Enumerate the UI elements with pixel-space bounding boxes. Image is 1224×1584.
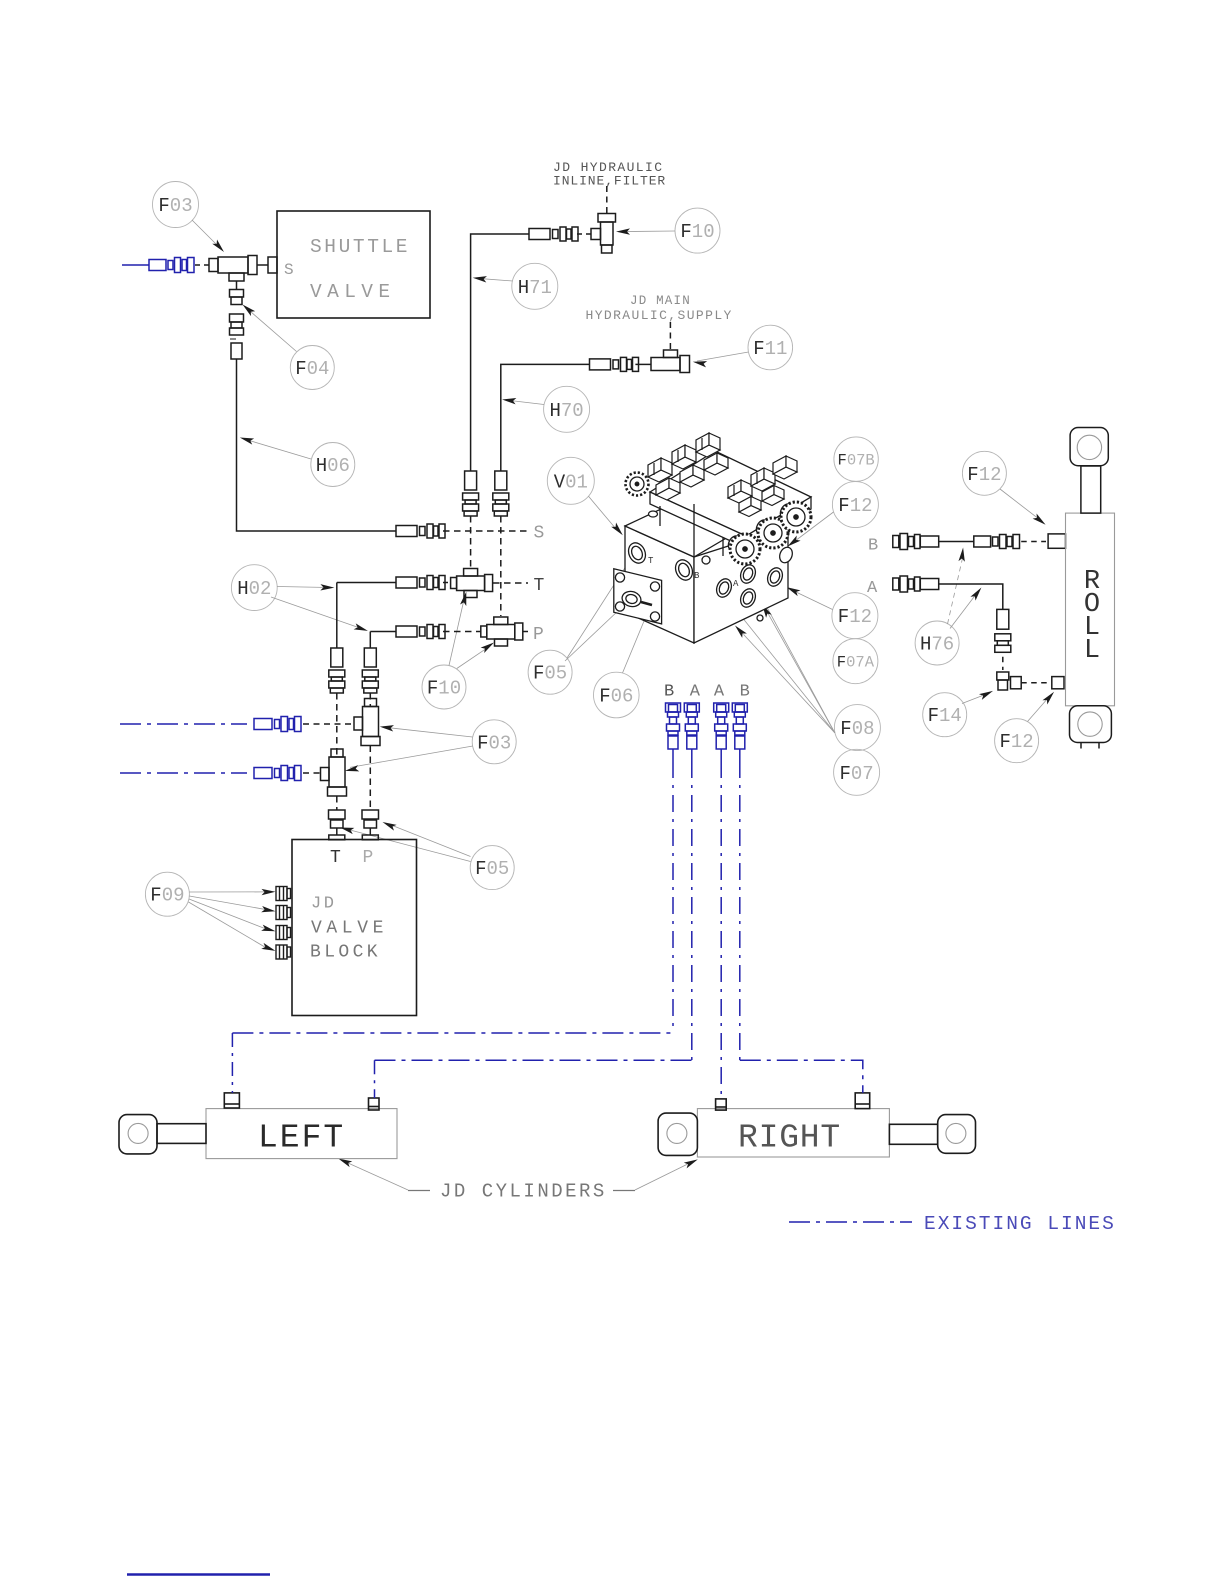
svg-text:H06: H06: [316, 455, 350, 477]
label H02: [231, 565, 277, 611]
label F05 (manifold): [528, 650, 572, 694]
H70 dashed drop to P tee: [500, 516, 502, 616]
hose H06 wire: [237, 359, 397, 531]
label F14: [923, 693, 967, 737]
hose H02 branch to node T: [337, 582, 396, 584]
dashed drops to tees: [336, 693, 338, 758]
svg-text:F12: F12: [1000, 731, 1034, 753]
svg-text:A: A: [714, 683, 725, 702]
LEFT cylinder: [119, 1093, 397, 1159]
svg-text:JD MAIN: JD MAIN: [630, 294, 691, 308]
svg-text:F07B: F07B: [838, 451, 875, 469]
arrowheads: [212, 228, 1056, 1168]
svg-text:INLINE,FILTER: INLINE,FILTER: [553, 174, 666, 189]
top sliver: [625, 501, 740, 557]
svg-text:T: T: [534, 576, 545, 596]
svg-text:P: P: [533, 625, 544, 645]
svg-text:S: S: [534, 524, 545, 544]
label F08: [834, 705, 880, 751]
svg-text:LEFT: LEFT: [258, 1120, 345, 1157]
hose H76 B line with fittings to ROLL port B: [893, 534, 1066, 550]
svg-text:H70: H70: [550, 400, 584, 422]
svg-text:F12: F12: [838, 606, 872, 628]
label H70: [544, 386, 590, 432]
label H76: [915, 621, 959, 665]
label F07B: [834, 437, 878, 481]
svg-text:RIGHT: RIGHT: [738, 1120, 841, 1157]
label F06: [594, 672, 640, 718]
svg-text:V01: V01: [554, 471, 588, 493]
svg-text:T: T: [330, 848, 341, 868]
label H06: [311, 443, 355, 487]
upper valve slab right: [746, 497, 811, 548]
svg-text:B: B: [740, 683, 750, 702]
fitting F10 inline filter tee (JD hydraulic inline filter): [529, 186, 616, 253]
S dashed line: [443, 530, 528, 532]
fitting F03 tee on existing line 1: [354, 699, 380, 746]
svg-text:JD: JD: [311, 895, 336, 914]
label F03 (top): [153, 182, 199, 228]
svg-text:P: P: [363, 848, 374, 868]
main block right face: [694, 527, 788, 643]
svg-text:VALVE: VALVE: [310, 281, 396, 303]
svg-text:F07: F07: [840, 763, 874, 785]
upper valve slab front: [650, 492, 746, 548]
svg-text:BLOCK: BLOCK: [310, 943, 381, 963]
svg-text:F12: F12: [838, 495, 872, 517]
JD valve block: [292, 840, 417, 1016]
existing line 1 (to P tee): [120, 717, 301, 732]
bottom page line: [127, 1573, 270, 1575]
fittings on H02 drops: [329, 648, 345, 693]
label F09: [145, 872, 189, 916]
svg-text:S: S: [284, 261, 294, 279]
svg-text:F03: F03: [477, 732, 511, 754]
P dashed to label: [523, 631, 528, 633]
svg-text:F11: F11: [753, 338, 787, 360]
svg-text:F07A: F07A: [837, 654, 875, 672]
svg-text:F08: F08: [840, 718, 874, 740]
svg-text:F14: F14: [928, 705, 962, 727]
label F11: [748, 325, 793, 370]
F09 nuts on block left: [276, 887, 291, 960]
knurled knobs: [626, 473, 812, 565]
solenoid coil rings: [726, 502, 794, 552]
svg-text:VALVE: VALVE: [311, 919, 388, 939]
svg-text:B: B: [664, 683, 674, 702]
elbow F14: [997, 672, 1009, 680]
drop lines: [673, 749, 740, 1099]
H71 dashed drop to T tee: [470, 516, 472, 568]
main block left face: [625, 526, 694, 643]
routing to RIGHT cylinder: [740, 1060, 863, 1093]
svg-text:JD CYLINDERS: JD CYLINDERS: [440, 1181, 607, 1203]
right face ports: [702, 545, 795, 621]
H70 line from supply: [501, 364, 590, 471]
hose H02 branch to node P: [370, 631, 396, 633]
svg-text:B: B: [868, 537, 878, 556]
dashed below tees: [336, 796, 338, 810]
routing to LEFT cylinder: [232, 1032, 673, 1034]
svg-text:A: A: [733, 579, 739, 589]
label F12 (a): [832, 482, 878, 528]
svg-text:F05: F05: [533, 663, 567, 685]
leader lines: [189, 220, 1047, 1190]
svg-text:H71: H71: [518, 277, 552, 299]
hose A line with fittings to ROLL port A: [893, 576, 1064, 690]
RIGHT cylinder: [658, 1093, 975, 1157]
fitting F03 tee on existing line 2: [321, 749, 347, 796]
svg-text:B: B: [694, 571, 700, 581]
fitting F03 tee at shuttle S port: [195, 256, 268, 282]
front face ports: [625, 540, 695, 583]
svg-text:L: L: [1084, 636, 1100, 666]
legend sample: [789, 1221, 912, 1223]
label F05 (jd block): [470, 846, 514, 890]
label F12 (b): [832, 593, 878, 639]
svg-text:EXISTING LINES: EXISTING LINES: [924, 1213, 1116, 1235]
top-left existing line into shuttle tee: [122, 258, 194, 273]
svg-text:A: A: [690, 683, 701, 702]
label H71: [512, 263, 558, 309]
svg-text:A: A: [867, 579, 878, 598]
svg-text:F05: F05: [475, 858, 509, 880]
upper valve slab top: [650, 451, 811, 536]
label F04: [290, 346, 334, 390]
hose-end fitting on S line: [396, 524, 445, 538]
label F03 (mid): [472, 720, 516, 764]
svg-text:F03: F03: [158, 195, 192, 217]
label F10 (tees): [422, 665, 466, 709]
label F07: [834, 749, 880, 795]
label V01: [547, 457, 594, 504]
svg-text:H76: H76: [920, 634, 954, 656]
couplers F07 at manifold ports B A A B: [666, 703, 681, 749]
H71 line from filter: [471, 234, 529, 471]
svg-text:HYDRAULIC,SUPPLY: HYDRAULIC,SUPPLY: [586, 308, 733, 323]
existing line 2 (to T tee): [120, 766, 301, 781]
fitting F04 column under tee: [230, 281, 244, 359]
label F12 (roll top): [962, 451, 1006, 495]
JD CYLINDERS note: [408, 1190, 635, 1192]
svg-text:F10: F10: [427, 678, 461, 700]
fitting F11 tee (JD main hydraulic supply): [590, 322, 690, 373]
T dashed to label: [493, 582, 528, 584]
sub block plate F06: [614, 569, 662, 624]
solenoid connector boxes on top: [648, 433, 797, 517]
fitting F10 tee on node P line: [481, 617, 523, 640]
svg-text:F04: F04: [295, 358, 329, 380]
circle label texts: [150, 195, 1033, 907]
small screw on top sliver: [649, 511, 658, 517]
fitting F10 tee on node T line: [451, 569, 493, 592]
svg-text:T: T: [648, 556, 654, 566]
fitting on hose H71 drop: [463, 471, 479, 516]
svg-text:H02: H02: [237, 578, 271, 600]
ROLL cylinder: [1066, 428, 1115, 749]
svg-text:F06: F06: [599, 686, 633, 708]
shuttle valve box: [268, 211, 430, 318]
fittings F05 at JD valve block T and P ports: [329, 810, 379, 840]
svg-text:F10: F10: [680, 221, 714, 243]
svg-text:F09: F09: [150, 885, 184, 907]
H02 corners and drops: [336, 583, 338, 649]
label F10 (filter): [675, 208, 720, 253]
label F12 (roll bottom): [995, 719, 1039, 763]
valve body verticals: [660, 504, 723, 557]
fitting on hose H70 drop: [493, 471, 509, 516]
svg-text:SHUTTLE: SHUTTLE: [310, 236, 410, 258]
label F07A: [833, 639, 878, 684]
svg-text:F12: F12: [967, 464, 1001, 486]
